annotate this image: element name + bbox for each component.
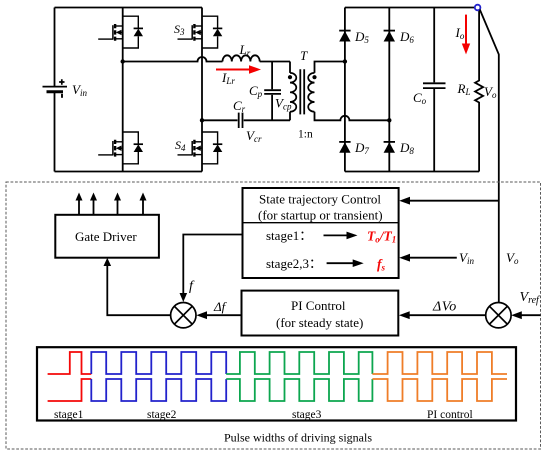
svg-text:PI Control: PI Control: [291, 298, 346, 313]
transistor Q2 bottom-left MOSFET: [98, 132, 143, 164]
wire multiplier to gate driver: [107, 263, 170, 315]
multiplier left: [171, 303, 196, 328]
transformer core: [300, 69, 304, 114]
svg-text:T: T: [300, 48, 308, 63]
wire Vo feedback diagonal: [480, 10, 499, 303]
svg-text:(for startup or transient): (for startup or transient): [258, 208, 383, 223]
svg-text:1:n: 1:n: [298, 129, 313, 141]
svg-text:Gate Driver: Gate Driver: [75, 229, 137, 244]
svg-text:RL: RL: [457, 81, 471, 97]
wire right leg: [201, 8, 203, 172]
svg-text:(for steady state): (for steady state): [276, 315, 363, 330]
svg-text:stage1：: stage1：: [266, 228, 312, 243]
svg-text:S3: S3: [174, 22, 185, 37]
svg-text:Vo: Vo: [484, 84, 497, 100]
node B junction dot: [200, 118, 204, 122]
svg-text:Cr: Cr: [233, 98, 246, 114]
wire f from state box: [183, 235, 242, 296]
svg-text:Io: Io: [455, 25, 465, 41]
wire left rail upper: [54, 8, 56, 87]
svg-text:D7: D7: [354, 140, 369, 156]
arrow Vin into state box: [399, 254, 457, 262]
wire tank bottom left: [202, 119, 238, 121]
Gate Driver box: [55, 215, 159, 258]
waveform bottom trace blue stage2: [91, 379, 226, 401]
svg-text:Δf: Δf: [213, 299, 228, 314]
arrow delta-Vo: [399, 311, 486, 319]
junction dot secondary top: [343, 59, 347, 63]
arrow stage1: [324, 232, 358, 240]
node A junction dot: [121, 59, 125, 63]
waveform top trace blue stage2: [91, 352, 226, 374]
waveform bottom trace orange PI: [372, 379, 507, 401]
svg-text:Vref: Vref: [520, 290, 541, 306]
arrowhead f down: [180, 293, 188, 302]
State trajectory Control box: [243, 188, 399, 278]
svg-text:PI control: PI control: [427, 409, 473, 421]
svg-text:stage1: stage1: [54, 409, 84, 421]
multiplier right: [486, 303, 511, 328]
transformer primary dot: [288, 75, 292, 79]
waveform bottom trace green stage3: [226, 379, 372, 401]
inductor Lr: [223, 55, 260, 61]
wire left leg: [122, 8, 124, 172]
wire top rail primary: [55, 7, 203, 9]
wire rectifier left branch: [344, 8, 346, 172]
svg-text:State trajectory Control: State trajectory Control: [259, 192, 381, 207]
svg-text:stage2,3：: stage2,3：: [266, 256, 322, 271]
svg-text:D6: D6: [399, 29, 414, 45]
arrow Vo into state box: [399, 197, 499, 205]
wire mid with hop over right leg: [123, 57, 223, 62]
wire rectifier right branch: [388, 8, 390, 172]
battery Vin: [43, 79, 68, 98]
PI Control box: [242, 291, 399, 336]
wire Lr to node X: [260, 61, 290, 63]
svg-text:D5: D5: [354, 29, 369, 45]
svg-text:Vin: Vin: [459, 250, 474, 266]
svg-text:stage2: stage2: [147, 409, 177, 421]
capacitor Cr: [239, 113, 243, 128]
diode D6: [384, 31, 395, 42]
arrow Vref: [511, 311, 540, 319]
diode D5: [339, 31, 350, 42]
capacitor Cp: [264, 62, 281, 121]
svg-text:Co: Co: [413, 90, 427, 106]
svg-text:S4: S4: [175, 138, 186, 153]
dashed border: [6, 182, 541, 449]
arrow ILr red: [216, 65, 261, 73]
waveform top trace green stage3: [226, 352, 372, 374]
wire bottom rail primary: [55, 171, 203, 173]
arrowhead into gate driver: [104, 258, 112, 266]
wire tank bottom right: [244, 119, 290, 121]
wire top rail secondary: [345, 7, 475, 9]
svg-text:Pulse widths of driving signal: Pulse widths of driving signals: [224, 431, 372, 445]
waveform box: [37, 347, 516, 420]
transformer T secondary: [308, 62, 389, 121]
capacitor Co: [423, 8, 446, 172]
waveform top trace orange PI: [372, 352, 507, 374]
junction dot secondary bottom: [387, 118, 391, 122]
svg-text:Vcr: Vcr: [246, 128, 262, 144]
transformer T primary: [290, 62, 296, 121]
svg-text:Vcp: Vcp: [275, 96, 292, 112]
svg-text:Lr: Lr: [239, 42, 251, 58]
svg-text:stage3: stage3: [292, 409, 322, 421]
transistor S3 top-right MOSFET: [178, 16, 223, 48]
gate driver output arrows: [76, 193, 147, 215]
divider line: [243, 222, 399, 224]
svg-text:Cp: Cp: [249, 83, 263, 99]
svg-text:ILr: ILr: [221, 70, 235, 86]
diode D7: [339, 142, 350, 153]
arrow delta-f: [196, 311, 241, 319]
svg-text:f: f: [189, 279, 195, 294]
transistor Q1 top-left MOSFET: [98, 16, 143, 48]
node output blue circle: [475, 5, 481, 11]
waveform bottom trace red stage1: [48, 379, 92, 401]
transistor S4 bottom-right MOSFET: [178, 132, 223, 164]
diode D8: [384, 142, 395, 153]
arrow Io red: [462, 15, 470, 55]
resistor RL: [475, 8, 483, 172]
waveform top trace red stage1: [48, 352, 92, 374]
svg-text:Vin: Vin: [72, 82, 87, 98]
transformer secondary dot: [312, 75, 316, 79]
wire left rail lower: [54, 92, 56, 172]
svg-text:ΔVo: ΔVo: [432, 300, 457, 315]
svg-text:D8: D8: [399, 140, 414, 156]
svg-text:Vo: Vo: [506, 250, 519, 266]
wire bottom rail secondary: [345, 171, 479, 173]
arrow stage2,3: [327, 259, 364, 267]
